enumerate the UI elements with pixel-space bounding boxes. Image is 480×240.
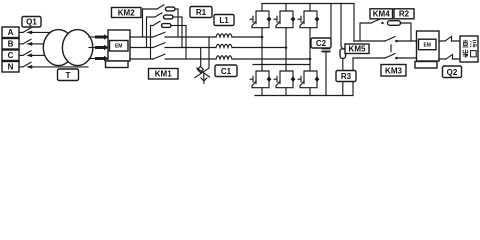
svg-text:R1: R1: [196, 8, 207, 17]
wire leg 3 to negative rail: [309, 88, 311, 96]
wire precharge riser left: [360, 23, 371, 41]
svg-text:KM1: KM1: [155, 70, 172, 79]
wire C1 riser from phase 1: [208, 37, 210, 68]
contactor KM2 pole 3: [151, 21, 161, 25]
svg-text:KM4: KM4: [373, 10, 390, 19]
svg-text:C: C: [8, 51, 14, 60]
resistor R1 element phase 2: [164, 15, 174, 19]
contactor KM1 pole 2: [153, 43, 165, 48]
svg-text:Q2: Q2: [447, 68, 458, 77]
IGBT module bottom leg 2: [274, 64, 295, 88]
junction phase 2 leg: [285, 46, 288, 49]
EMI filter 2 pedestal: [415, 62, 437, 69]
wire phase A primary: [32, 31, 52, 33]
contactor KM5 pole positive: [385, 37, 398, 43]
disconnector Q2 pole positive: [445, 36, 452, 41]
input terminal box B: [2, 39, 19, 50]
wire bypass to riser right phase 2: [174, 16, 182, 18]
capacitor C2 plates: [322, 48, 331, 53]
IGBT module bottom leg 3: [298, 64, 319, 88]
label T: [58, 69, 79, 81]
wire leg 1 midpoint: [261, 28, 263, 65]
svg-text:KM2: KM2: [118, 8, 135, 17]
label Q1: [22, 17, 41, 28]
label KM3: [381, 65, 406, 77]
wire phase 3 to inductor: [165, 58, 216, 60]
svg-text:A: A: [8, 28, 14, 37]
contactor KM2 pole 2: [147, 13, 163, 17]
junction phase 1 leg: [261, 36, 264, 39]
wire phase C primary: [32, 54, 45, 56]
wire output positive: [439, 40, 460, 42]
contactor KM2 pole 1: [143, 5, 165, 9]
label KM4: [370, 9, 393, 19]
wire riser bypass left phase 3: [150, 26, 152, 60]
label R1: [190, 7, 212, 18]
IGBT module top leg 3: [298, 4, 319, 28]
svg-text:L1: L1: [219, 16, 229, 25]
resistor R1 element phase 1: [166, 7, 176, 11]
wire phase 2 to bridge leg: [232, 47, 286, 49]
arrow transformer secondary output y37.0: [89, 34, 109, 39]
wire riser bypass left phase 2: [146, 17, 148, 48]
contactor KM4: [371, 19, 384, 25]
contactor KM5 pole negative: [385, 54, 398, 60]
disconnector Q1 pole A: [19, 28, 32, 35]
transformer T secondary winding: [62, 30, 92, 66]
svg-text:B: B: [8, 40, 14, 49]
inductor L1 phase 2: [216, 44, 232, 47]
wire riser bypass right phase 3: [185, 26, 187, 60]
wire C1 riser from phase 2: [200, 48, 202, 67]
disconnector Q1 pole N: [19, 62, 32, 69]
svg-text:C1: C1: [221, 67, 232, 76]
disconnector Q2 pole negative: [446, 54, 453, 59]
EMI filter module EM (input side): [108, 30, 130, 61]
svg-text:KM3: KM3: [385, 66, 402, 75]
wire leg 3 midpoint: [309, 28, 311, 65]
wire R3 bottom lead: [342, 58, 344, 95]
wire N conductor: [32, 66, 89, 68]
label C1: [215, 65, 237, 77]
resistor R1 element phase 3: [162, 24, 172, 28]
DC output port box (direct-current port): [460, 36, 478, 62]
svg-text:EM: EM: [115, 44, 123, 50]
IGBT module bottom leg 1: [250, 64, 271, 88]
input terminal box C: [2, 50, 19, 61]
DC bus negative rail: [255, 58, 353, 96]
EMI filter module EM (output side): [417, 31, 440, 61]
input terminal box A: [2, 27, 19, 38]
mechanical link KM5 poles: [390, 45, 392, 52]
label L1: [214, 15, 234, 26]
wire R3 top lead: [341, 4, 343, 49]
svg-text:T: T: [66, 71, 71, 80]
wire output negative: [439, 58, 460, 60]
wire C2 positive lead: [330, 4, 332, 39]
disconnector Q1 pole C: [19, 51, 32, 58]
wire riser bypass right phase 2: [181, 17, 183, 48]
svg-text:C2: C2: [316, 39, 327, 48]
capacitor bank C1 (delta): [195, 67, 210, 84]
EMI filter 1 pedestal: [106, 61, 129, 68]
IGBT module top leg 2: [274, 4, 295, 28]
contactor KM1 pole 3: [153, 54, 165, 59]
resistor R2 element: [388, 21, 401, 26]
wire DC negative line: [353, 57, 417, 59]
label R2: [394, 9, 414, 19]
wire phase 1 to bridge leg: [232, 36, 262, 38]
wire DC positive line: [354, 40, 417, 42]
wire leg 2 to negative rail: [285, 88, 287, 96]
wire bypass to riser right phase 3: [172, 25, 186, 27]
transformer T primary winding: [43, 30, 73, 66]
wire phase 3 to bridge leg: [232, 58, 310, 60]
wire phase 1 to inductor: [165, 36, 216, 38]
label KM2: [112, 8, 142, 18]
label Q2: [443, 66, 462, 78]
junction phase 3 leg: [309, 58, 312, 61]
wire phase 1 line from filter: [130, 36, 153, 38]
svg-text:KM5: KM5: [349, 44, 366, 53]
wire phase 2 to inductor: [165, 47, 216, 49]
arrow transformer secondary output y58.5: [89, 56, 109, 61]
contactor KM1 pole 1: [153, 32, 165, 37]
svg-text:R2: R2: [399, 10, 410, 19]
wire riser bypass right phase 1: [177, 9, 179, 37]
wire bypass to riser right phase 1: [176, 8, 178, 10]
inductor L1 phase 3: [216, 56, 232, 59]
svg-text:R3: R3: [341, 72, 352, 81]
DC bus positive rail: [262, 4, 354, 42]
svg-text:Q1: Q1: [26, 18, 37, 27]
input terminal box N: [2, 62, 19, 73]
label C2: [311, 38, 331, 48]
wire precharge to riser right: [401, 23, 412, 41]
IGBT module top leg 1: [250, 4, 271, 28]
wire phase B primary: [32, 43, 45, 45]
wire phase 2 line from filter: [130, 47, 153, 49]
wire leg 2 midpoint: [285, 28, 287, 65]
label KM1: [149, 69, 179, 80]
disconnector Q1 pole B: [19, 39, 32, 46]
label KM5: [345, 44, 369, 54]
bottom collector bus: [253, 64, 310, 66]
svg-text:EM: EM: [423, 42, 431, 48]
wire leg 1 to negative rail: [261, 88, 263, 96]
wire phase 3 line from filter: [130, 58, 153, 60]
label R3: [336, 71, 356, 82]
wire riser bypass left phase 1: [142, 9, 144, 37]
arrow transformer secondary output y47.5: [89, 45, 109, 50]
resistor R3 element: [340, 49, 346, 59]
svg-text:N: N: [8, 63, 14, 72]
wire C2 negative lead: [325, 52, 327, 95]
inductor L1 phase 1: [216, 34, 232, 37]
